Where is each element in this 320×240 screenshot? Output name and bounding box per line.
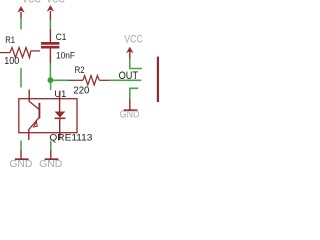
wire from VCC arrow 2 to C1 bbox=[49, 20, 51, 30]
emitter arrowhead bbox=[34, 122, 38, 127]
svg-text:U1: U1 bbox=[54, 89, 66, 99]
wire R2 to OUT bbox=[109, 79, 141, 81]
optocoupler U1 box QRE1113 bbox=[19, 99, 77, 133]
wire from VCC arrow 1 down bbox=[20, 18, 22, 30]
ground symbol mid bbox=[39, 151, 62, 170]
junction node dot bbox=[48, 77, 54, 83]
svg-text:OUT: OUT bbox=[119, 70, 139, 82]
wire R1 column down to U1 bbox=[20, 68, 22, 88]
svg-text:VCC: VCC bbox=[124, 33, 143, 45]
LED D (part of U1) bbox=[55, 112, 66, 118]
resistor R2 bbox=[68, 76, 110, 85]
transistor emitter pin bbox=[28, 129, 30, 140]
wire VCC arrow 3 elbow right bbox=[130, 59, 142, 69]
svg-text:100: 100 bbox=[4, 56, 19, 67]
power symbol VCC arrow 2 bbox=[47, 5, 54, 20]
svg-text:10nF: 10nF bbox=[56, 51, 75, 62]
LED anode pin (part of U1) bbox=[59, 92, 61, 113]
svg-text:VCC: VCC bbox=[22, 0, 41, 5]
svg-text:C1: C1 bbox=[56, 32, 67, 43]
svg-text:GND: GND bbox=[39, 159, 62, 170]
LED cathode pin bbox=[59, 119, 61, 140]
svg-text:220: 220 bbox=[73, 86, 89, 97]
svg-text:QRE1113: QRE1113 bbox=[49, 132, 92, 142]
power symbol VCC arrow 3 bbox=[126, 47, 133, 59]
svg-text:VCC: VCC bbox=[46, 0, 65, 5]
power symbol VCC arrow 1 bbox=[17, 6, 24, 19]
wire C1 to junction bbox=[49, 63, 51, 78]
svg-text:GND: GND bbox=[120, 110, 140, 121]
wire junction to R2 bbox=[53, 79, 69, 81]
wire LED cathode to GND mid bbox=[50, 141, 52, 152]
component edge cut off at right bbox=[157, 57, 159, 102]
wire elbow to GND (right) bbox=[130, 88, 138, 99]
svg-text:R2: R2 bbox=[75, 65, 85, 76]
resistor R1 bbox=[0, 48, 40, 58]
svg-text:R1: R1 bbox=[5, 35, 15, 46]
svg-text:GND: GND bbox=[9, 159, 32, 170]
capacitor C1 bbox=[41, 29, 59, 64]
ground symbol right bbox=[120, 99, 140, 121]
wire junction down to U1 bbox=[50, 82, 52, 90]
transistor collector pin bbox=[28, 90, 30, 103]
phototransistor Q (part of U1) bbox=[29, 101, 40, 129]
wire emitter to GND left bbox=[20, 141, 22, 152]
LED cathode bar bbox=[55, 117, 66, 119]
ground symbol left bbox=[9, 151, 32, 170]
